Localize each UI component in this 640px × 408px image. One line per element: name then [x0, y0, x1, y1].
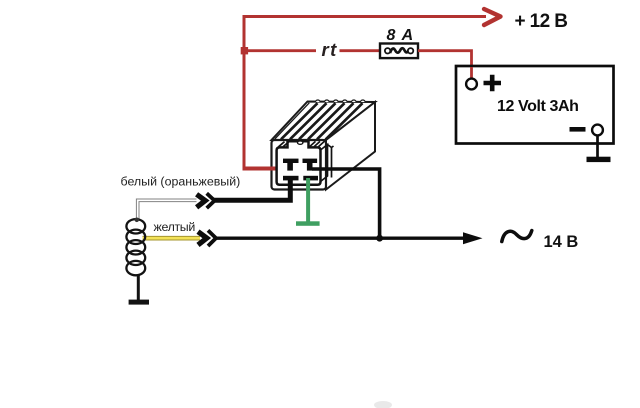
- regulator U1 top face: [272, 102, 376, 141]
- battery minus terminal: [592, 125, 603, 136]
- svg-text:желтый: желтый: [154, 220, 196, 234]
- wire red vertical drop: [243, 15, 246, 170]
- wire battery minus to ground: [596, 135, 599, 157]
- regulator fin tops on back edge: [316, 100, 366, 102]
- svg-text:белый (ораньжевый): белый (ораньжевый): [121, 175, 241, 189]
- regulator fins: [281, 103, 363, 139]
- wire black pin2 out right and down: [312, 169, 380, 236]
- wire red inside battery to plus terminal: [470, 67, 473, 78]
- fuse end cap right: [408, 48, 413, 53]
- svg-text:+ 12 В: + 12 В: [515, 11, 568, 32]
- connector top vent hole: [298, 141, 303, 144]
- ground battery: [587, 157, 611, 162]
- connector chevrons white row: [197, 194, 206, 207]
- node junction red: [241, 47, 248, 54]
- battery plus terminal: [466, 79, 477, 90]
- fuse element: [390, 48, 409, 53]
- fuse F1 body: [380, 44, 418, 59]
- wire black yellow-row to arrow: [215, 236, 467, 239]
- ground green: [296, 221, 320, 226]
- regulator right face: [326, 102, 375, 190]
- generator coil L1: [126, 219, 145, 275]
- node coil top: [135, 218, 140, 223]
- wire green pin4 to ground: [306, 178, 310, 222]
- wire coil to ground: [137, 275, 140, 300]
- label AC tilde: [502, 231, 532, 242]
- svg-text:12 Volt 3Ah: 12 Volt 3Ah: [497, 98, 579, 115]
- node junction black: [376, 235, 383, 242]
- wire yellow: [143, 236, 201, 241]
- regulator front face: [272, 140, 327, 190]
- pin 4 (bottom-right, green earth): [303, 176, 318, 181]
- connector chevrons yellow row: [198, 232, 207, 245]
- smudge artifact: [374, 401, 392, 408]
- pin 3 (bottom-left, white wire): [283, 176, 299, 181]
- wire white (double line): [138, 200, 197, 219]
- arrowhead 14V: [463, 232, 483, 244]
- svg-text:rt: rt: [322, 39, 338, 60]
- battery plus sign: [484, 75, 502, 91]
- ground coil: [129, 300, 149, 305]
- pin 2 (top-right, out to load): [303, 159, 318, 163]
- battery BT1 box: [456, 66, 614, 144]
- node +12V arrowhead: [484, 9, 501, 25]
- fuse end cap left: [385, 48, 390, 53]
- battery minus sign: [570, 127, 586, 132]
- wire red branch to fuse: [244, 49, 316, 52]
- connector top keying ribs: [279, 141, 325, 147]
- svg-text:8 A: 8 A: [387, 27, 415, 44]
- wire red rt-to-fuse: [340, 49, 382, 52]
- connector 3d right side: [321, 145, 334, 182]
- wire red to pin 1: [243, 167, 292, 171]
- wire red fuse-to-battery: [418, 51, 472, 66]
- pin 1 (top-left, +12V in): [283, 159, 299, 163]
- regulator left edge inner line: [275, 103, 310, 139]
- wire red bus top horizontal: [243, 15, 487, 18]
- wire black pin3 to chevron: [214, 178, 291, 200]
- svg-text:14 В: 14 В: [544, 233, 579, 251]
- connector socket outline: [277, 141, 321, 185]
